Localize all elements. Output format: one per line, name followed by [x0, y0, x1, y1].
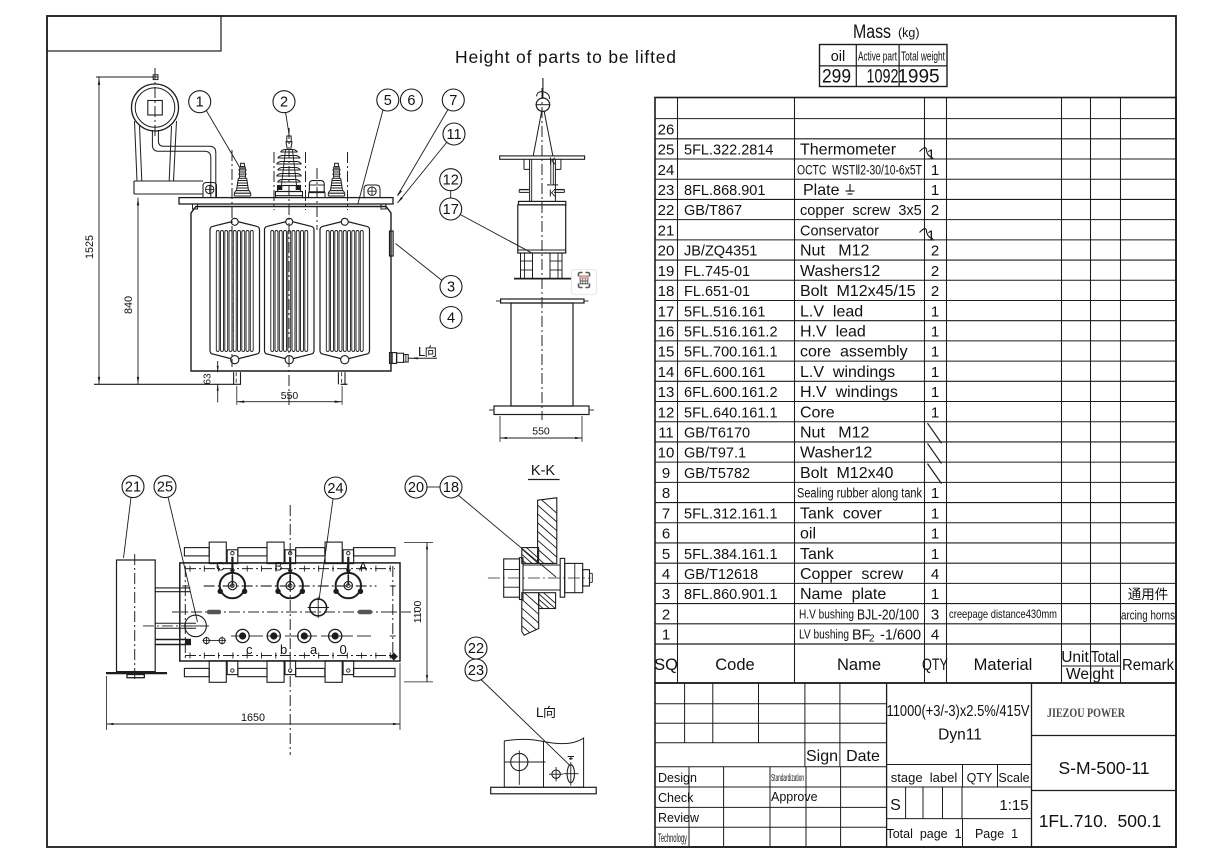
- svg-text:1FL.710. 500.1: 1FL.710. 500.1: [1039, 811, 1162, 831]
- callout 6: [400, 89, 422, 111]
- HV bushing 1 front: [234, 163, 250, 196]
- svg-text:21: 21: [658, 222, 675, 239]
- svg-text:Name: Name: [837, 656, 881, 674]
- svg-text:1: 1: [662, 627, 670, 644]
- core clamp feet (lifting view): [514, 253, 572, 279]
- svg-text:Total page 1: Total page 1: [886, 827, 961, 841]
- svg-text:1: 1: [931, 546, 939, 563]
- svg-text:Core: Core: [800, 404, 835, 421]
- svg-text:Technology: Technology: [658, 833, 687, 845]
- HV bushing 2 front (center): [276, 128, 303, 198]
- front view dimension 1525: [84, 77, 158, 384]
- plan view inner frame verticals: [182, 566, 397, 661]
- tank body front: [191, 207, 391, 372]
- parts row 10: [658, 443, 942, 463]
- svg-text:7: 7: [449, 93, 457, 109]
- svg-text:5: 5: [384, 93, 392, 109]
- svg-text:BF: BF: [852, 628, 871, 644]
- svg-text:creepage distance430mm: creepage distance430mm: [949, 607, 1057, 621]
- svg-text:H.V lead: H.V lead: [800, 323, 866, 340]
- plan view HV bushing C: [216, 557, 247, 599]
- svg-text:Tank cover: Tank cover: [800, 505, 882, 522]
- svg-text:12: 12: [658, 404, 675, 421]
- svg-text:1: 1: [931, 526, 939, 543]
- svg-text:299: 299: [822, 67, 851, 88]
- svg-text:GB/T6170: GB/T6170: [684, 426, 750, 442]
- callout 1: [189, 91, 240, 167]
- svg-text:b: b: [280, 642, 287, 657]
- plan view HV bushing A: [333, 557, 367, 599]
- svg-text:840: 840: [123, 296, 135, 314]
- plan view bolt circle lines bottom: [185, 653, 395, 659]
- svg-text:SQ: SQ: [654, 656, 678, 674]
- parts row 2: [662, 606, 1176, 623]
- svg-text:Page 1: Page 1: [975, 827, 1018, 841]
- svg-text:C: C: [216, 560, 225, 574]
- section plane K marks: [549, 157, 556, 200]
- svg-text:Tank: Tank: [800, 546, 835, 563]
- svg-text:Date: Date: [846, 748, 880, 765]
- plan view bottom lug B: [267, 661, 296, 683]
- svg-text:Scale: Scale: [998, 771, 1029, 785]
- L view base plate: [491, 787, 597, 794]
- svg-text:5FL.312.161.1: 5FL.312.161.1: [684, 506, 778, 522]
- svg-text:25: 25: [157, 480, 173, 496]
- K-K section label: [528, 463, 560, 480]
- callout 21: [122, 476, 144, 558]
- svg-text:1: 1: [931, 404, 939, 421]
- L view small hole: [549, 767, 563, 781]
- svg-text:L.V lead: L.V lead: [800, 303, 863, 320]
- svg-text:1: 1: [931, 182, 939, 199]
- svg-text:12: 12: [443, 173, 459, 189]
- parts row 24: [658, 162, 940, 179]
- front view dimension 63: [203, 361, 219, 402]
- svg-text:22: 22: [658, 202, 675, 219]
- plan view top lug A: [325, 542, 354, 564]
- svg-text:H.V bushing: H.V bushing: [799, 607, 854, 621]
- svg-text:6: 6: [407, 93, 415, 109]
- svg-text:2: 2: [931, 283, 939, 300]
- parts row 19: [658, 263, 940, 280]
- callout 3: [396, 244, 463, 298]
- svg-text:2: 2: [931, 263, 939, 280]
- parts row 9: [662, 464, 942, 484]
- svg-text:8FL.868.901: 8FL.868.901: [684, 183, 765, 199]
- svg-text:2: 2: [931, 243, 939, 260]
- svg-text:向: 向: [543, 705, 556, 720]
- svg-text:13: 13: [658, 384, 675, 401]
- svg-text:Sealing rubber along tank: Sealing rubber along tank: [797, 486, 922, 501]
- svg-text:-1/600: -1/600: [880, 628, 921, 644]
- svg-text:Washers12: Washers12: [800, 263, 880, 280]
- tank feet front: [234, 372, 348, 384]
- K-K upper left block (hatched): [519, 541, 542, 588]
- svg-text:4: 4: [931, 627, 939, 644]
- svg-text:GB/T5782: GB/T5782: [684, 466, 750, 482]
- svg-text:18: 18: [658, 283, 675, 300]
- title block right: company and drawing numbers: [1032, 705, 1177, 831]
- plan view thermometer pocket circle: [183, 615, 208, 637]
- centerline right bushing: [347, 152, 349, 210]
- plan view bolt circle lines top: [185, 566, 395, 572]
- plan view dimension 1100: [404, 543, 433, 682]
- parts row 17: [658, 303, 940, 320]
- svg-text:15: 15: [658, 344, 675, 361]
- L view left hole: [505, 751, 546, 785]
- svg-text:26: 26: [658, 121, 675, 138]
- plan view LV bushing c: [236, 629, 253, 657]
- parts row 18: [658, 283, 940, 300]
- svg-text:copper screw 3x5: copper screw 3x5: [800, 203, 922, 219]
- svg-text:L.V windings: L.V windings: [800, 364, 895, 381]
- callout 23: [465, 659, 570, 766]
- L view oval hole with ground mark: [564, 757, 579, 786]
- svg-text:1: 1: [931, 323, 939, 340]
- svg-text:S-M-500-11: S-M-500-11: [1058, 758, 1149, 778]
- plan view HV axis line: [204, 585, 377, 587]
- svg-text:3: 3: [931, 606, 939, 623]
- parts row 23: [658, 182, 940, 199]
- parts row 16: [658, 323, 940, 340]
- svg-text:19: 19: [658, 263, 675, 280]
- plan view vertical centerline B: [289, 505, 291, 755]
- svg-text:core assembly: core assembly: [800, 344, 908, 361]
- K-K lower plate (hatched): [519, 588, 542, 670]
- svg-text:Name plate: Name plate: [800, 586, 886, 603]
- svg-text:QTY: QTY: [967, 771, 993, 785]
- svg-text:6: 6: [662, 526, 670, 543]
- lifting view centerline: [541, 88, 543, 420]
- svg-text:Check: Check: [658, 791, 694, 805]
- svg-text:(kg): (kg): [898, 26, 920, 40]
- svg-text:63: 63: [203, 373, 214, 385]
- svg-text:S: S: [890, 797, 901, 814]
- top-left revision box: [47, 16, 221, 51]
- svg-text:FL.745-01: FL.745-01: [684, 264, 750, 280]
- svg-text:B: B: [275, 560, 283, 574]
- active part body (lifting view): [518, 201, 566, 253]
- svg-text:5FL.384.161.1: 5FL.384.161.1: [684, 547, 778, 563]
- parts table grid: [655, 98, 1176, 684]
- svg-text:20: 20: [658, 243, 675, 260]
- lifting beam: [500, 156, 585, 159]
- title block signature grid: [655, 683, 1176, 847]
- callout 4: [440, 307, 462, 329]
- svg-text:H.V windings: H.V windings: [800, 384, 898, 401]
- tank flange (lifting view): [496, 299, 589, 303]
- svg-text:6FL.600.161.2: 6FL.600.161.2: [684, 385, 778, 401]
- svg-text:Dyn11: Dyn11: [938, 727, 982, 744]
- plan view top lug C: [209, 542, 238, 564]
- drain valve front: [390, 353, 438, 364]
- svg-text:A: A: [359, 560, 367, 574]
- lifting slings: [533, 111, 553, 156]
- svg-text:1: 1: [931, 505, 939, 522]
- svg-text:Nut M12: Nut M12: [800, 243, 869, 260]
- svg-text:Total weight: Total weight: [901, 49, 945, 64]
- svg-text:c: c: [246, 642, 253, 657]
- plan view LV axis line: [231, 635, 371, 637]
- lid lifting lug right: [364, 185, 380, 198]
- conservator platform: [134, 181, 217, 198]
- svg-text:1: 1: [931, 364, 939, 381]
- svg-text:K: K: [549, 157, 556, 168]
- svg-text:4: 4: [931, 566, 939, 583]
- callout 25: [154, 476, 198, 622]
- tank body (lifting view): [489, 303, 594, 415]
- svg-text:1: 1: [931, 384, 939, 401]
- parts table header row: [654, 649, 1174, 683]
- parts row 7: [662, 505, 939, 522]
- svg-text:a: a: [310, 642, 318, 657]
- svg-text:1: 1: [931, 344, 939, 361]
- svg-text:Weight: Weight: [1066, 666, 1115, 683]
- parts row 3: [662, 586, 1168, 603]
- svg-text:Standardization: Standardization: [771, 772, 804, 784]
- svg-text:JB/ZQ4351: JB/ZQ4351: [684, 244, 757, 260]
- plan view mid axis line: [172, 610, 420, 614]
- svg-text:Bolt M12x45/15: Bolt M12x45/15: [800, 283, 916, 300]
- radiator flange right side: [390, 231, 394, 256]
- svg-text:24: 24: [327, 481, 343, 497]
- svg-text:7: 7: [662, 505, 670, 522]
- table capture overlay icon: [572, 270, 597, 295]
- plan view small bolts left: [202, 637, 226, 645]
- title: Height of parts to be lifted: [455, 47, 677, 67]
- callout 11: [398, 123, 466, 203]
- callout 20: [405, 476, 441, 498]
- svg-text:BJL-20/100: BJL-20/100: [857, 607, 919, 623]
- radiator panel 2: [265, 218, 315, 364]
- svg-text:10: 10: [658, 445, 675, 462]
- svg-text:2: 2: [280, 95, 288, 111]
- svg-text:Sign: Sign: [806, 748, 838, 765]
- lifting view dimension 550: [500, 416, 582, 442]
- mass table: [820, 22, 948, 88]
- parts row 26: [658, 121, 675, 138]
- svg-text:Active part: Active part: [858, 49, 897, 64]
- svg-text:1092: 1092: [867, 67, 899, 88]
- svg-text:1100: 1100: [412, 601, 424, 624]
- svg-text:1: 1: [931, 303, 939, 320]
- svg-text:5FL.516.161.2: 5FL.516.161.2: [684, 324, 778, 340]
- svg-text:Thermometer: Thermometer: [800, 142, 897, 159]
- svg-text:Plate: Plate: [803, 182, 840, 199]
- plan view top rail strips: [184, 548, 395, 556]
- plan view bottom lug A: [325, 661, 354, 683]
- callout 5: [358, 89, 399, 204]
- callout 17: [440, 198, 532, 253]
- svg-text:GB/T12618: GB/T12618: [684, 567, 758, 583]
- svg-text:550: 550: [532, 426, 550, 438]
- svg-text:Total: Total: [1091, 649, 1119, 666]
- oil pipe conservator to tank: [152, 130, 215, 198]
- plan view thermometer seat: [308, 597, 330, 618]
- svg-text:OCTC WSTⅡ2-30/10-6x5T: OCTC WSTⅡ2-30/10-6x5T: [797, 162, 922, 177]
- K-K bolt: [488, 558, 592, 600]
- svg-text:3: 3: [447, 280, 455, 296]
- upper frame of active part: [519, 159, 564, 201]
- svg-text:K-K: K-K: [531, 463, 556, 479]
- svg-text:5FL.640.161.1: 5FL.640.161.1: [684, 405, 778, 421]
- svg-text:通用件: 通用件: [1128, 587, 1169, 602]
- oil level gauge front: [309, 181, 325, 198]
- svg-text:LV bushing: LV bushing: [799, 628, 849, 642]
- plan view conservator: [106, 554, 167, 679]
- parts row 4: [662, 566, 939, 583]
- svg-text:oil: oil: [800, 526, 816, 543]
- parts row 20: [658, 243, 940, 260]
- view L label: [536, 705, 556, 720]
- svg-text:Conservator: Conservator: [800, 223, 879, 239]
- svg-text:stage label: stage label: [891, 770, 958, 785]
- svg-text:1: 1: [931, 485, 939, 502]
- svg-text:18: 18: [443, 480, 459, 496]
- svg-text:8: 8: [662, 485, 670, 502]
- svg-text:21: 21: [125, 480, 141, 496]
- svg-text:Code: Code: [715, 656, 754, 674]
- plan view LV bushing a: [298, 629, 318, 657]
- tank centerline: [288, 128, 290, 405]
- svg-text:5FL.322.2814: 5FL.322.2814: [684, 143, 774, 159]
- plan view bottom lug C: [209, 661, 238, 683]
- svg-text:1: 1: [931, 162, 939, 179]
- svg-text:1995: 1995: [897, 67, 939, 88]
- svg-text:14: 14: [658, 364, 675, 381]
- parts row 11: [658, 423, 941, 443]
- parts row 25: [658, 142, 936, 164]
- parts row 12: [658, 404, 940, 421]
- svg-text:Review: Review: [658, 811, 700, 825]
- svg-text:GB/T97.1: GB/T97.1: [684, 446, 746, 462]
- callout 18: [440, 476, 556, 577]
- svg-text:9: 9: [662, 465, 670, 482]
- front view dimension 840: [123, 198, 139, 385]
- svg-text:11000(+3/-3)x2.5%/415V: 11000(+3/-3)x2.5%/415V: [887, 703, 1031, 720]
- plan view LV bushing 0: [329, 629, 347, 657]
- svg-text:23: 23: [468, 663, 484, 679]
- svg-text:1: 1: [196, 95, 204, 111]
- svg-text:Bolt M12x40: Bolt M12x40: [800, 465, 893, 482]
- svg-text:22: 22: [468, 641, 484, 657]
- svg-text:6FL.600.161: 6FL.600.161: [684, 365, 765, 381]
- svg-text:JIEZOU POWER: JIEZOU POWER: [1047, 705, 1125, 720]
- parts row 13: [658, 384, 940, 401]
- svg-text:Copper screw: Copper screw: [800, 566, 904, 583]
- svg-text:2: 2: [869, 634, 875, 645]
- svg-text:5: 5: [662, 546, 670, 563]
- svg-text:2: 2: [662, 606, 670, 623]
- svg-text:K: K: [549, 189, 556, 200]
- svg-text:oil: oil: [831, 49, 846, 65]
- svg-text:4: 4: [447, 311, 455, 327]
- conservator support legs: [135, 121, 177, 181]
- svg-text:1:15: 1:15: [999, 797, 1028, 814]
- svg-text:2: 2: [931, 202, 939, 219]
- svg-text:5FL.700.161.1: 5FL.700.161.1: [684, 345, 778, 361]
- svg-text:550: 550: [281, 390, 299, 402]
- plan view bottom rail strips: [184, 668, 395, 676]
- svg-text:0: 0: [340, 642, 347, 657]
- callout 24: [319, 477, 347, 600]
- parts row 21: [658, 222, 936, 244]
- conservator front: [132, 68, 179, 136]
- svg-text:Design: Design: [658, 771, 697, 785]
- svg-text:Remark: Remark: [1122, 657, 1174, 674]
- K-K upper plate (hatched): [535, 494, 560, 586]
- parts row 15: [658, 344, 940, 361]
- plan view LV bushing b: [267, 629, 287, 657]
- title block middle: ratings and scale: [886, 703, 1031, 847]
- svg-text:向: 向: [425, 344, 438, 359]
- svg-text:QTY: QTY: [922, 656, 948, 674]
- front view dimension 550: [237, 386, 342, 405]
- svg-text:25: 25: [658, 142, 675, 159]
- callout 22: [465, 637, 487, 659]
- svg-text:Washer12: Washer12: [800, 445, 872, 462]
- svg-text:8FL.860.901.1: 8FL.860.901.1: [684, 587, 778, 603]
- svg-text:17: 17: [658, 303, 675, 320]
- plan view top lug B: [267, 542, 296, 564]
- svg-text:1: 1: [931, 586, 939, 603]
- callout 2: [273, 91, 295, 134]
- parts row 5: [662, 546, 939, 563]
- winding centerline left: [231, 150, 233, 367]
- section line right of HV bushing: [274, 152, 306, 210]
- plan view pipes: [143, 588, 209, 645]
- L view plate: [504, 738, 583, 787]
- svg-text:3: 3: [662, 586, 670, 603]
- svg-text:Approve: Approve: [771, 790, 818, 804]
- svg-text:arcing horns: arcing horns: [1121, 607, 1175, 622]
- radiator panel 1: [210, 218, 260, 364]
- svg-text:16: 16: [658, 323, 675, 340]
- K-K lower right block (hatched): [536, 586, 559, 633]
- view direction mark L at drain valve: [418, 344, 437, 359]
- svg-text:GB/T867: GB/T867: [684, 203, 742, 219]
- svg-text:Material: Material: [974, 656, 1033, 674]
- parts row 1: [662, 627, 939, 645]
- svg-text:Nut M12: Nut M12: [800, 425, 869, 442]
- svg-text:20: 20: [408, 480, 424, 496]
- svg-text:5FL.516.161: 5FL.516.161: [684, 304, 765, 320]
- lifting hook: [536, 78, 551, 111]
- svg-text:Unit: Unit: [1061, 649, 1089, 666]
- parts row 22: [658, 202, 940, 219]
- tank cover (lid): [179, 198, 393, 209]
- parts row 14: [658, 364, 940, 381]
- callout 12: [440, 169, 462, 198]
- svg-text:17: 17: [443, 202, 459, 218]
- plan view tank outline: [180, 563, 400, 661]
- parts row 6: [662, 526, 939, 543]
- svg-text:FL.651-01: FL.651-01: [684, 284, 750, 300]
- svg-text:4: 4: [662, 566, 670, 583]
- svg-text:11: 11: [446, 127, 461, 143]
- centerline through oil gauge: [316, 168, 318, 230]
- svg-text:23: 23: [658, 182, 675, 199]
- svg-text:24: 24: [658, 162, 675, 179]
- plan view dimension 1650: [107, 663, 400, 730]
- parts row 8: [662, 485, 939, 502]
- svg-text:Height of parts to be lifted: Height of parts to be lifted: [455, 47, 677, 67]
- callout 7: [398, 89, 465, 197]
- HV bushing 3 front: [328, 163, 344, 196]
- ground baseline: [94, 383, 241, 385]
- plan view HV bushing B: [275, 557, 306, 599]
- svg-text:1650: 1650: [241, 712, 265, 724]
